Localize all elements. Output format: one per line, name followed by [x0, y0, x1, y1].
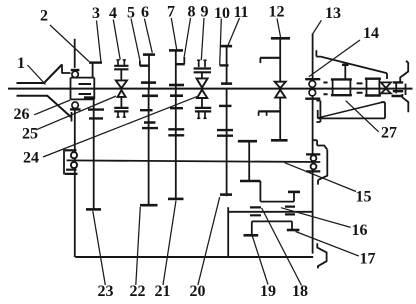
spindle clutch bowtie upper [381, 82, 391, 88]
small gear bar left of clutch 12 [260, 57, 280, 59]
svg-text:2: 2 [40, 7, 48, 24]
leader 27 [346, 101, 379, 132]
wall bracket B2 [313, 140, 327, 184]
leader 26 [34, 100, 70, 115]
block a web [148, 55, 150, 89]
V3 dash pair [217, 130, 233, 136]
dog coupling comb bar [258, 110, 280, 112]
svg-text:27: 27 [381, 125, 397, 142]
shaft I main horizontal line [8, 88, 413, 90]
V1 dash pair [142, 123, 158, 129]
idler gear web [248, 141, 250, 181]
pack top bars [114, 66, 128, 70]
leader 23 [93, 211, 106, 285]
spindle gear G1 bars [331, 79, 352, 95]
pack bottom serifs [116, 116, 126, 118]
sliding gear block b (labels 7,8): cap [169, 49, 183, 52]
bearing (lower) circle [72, 102, 78, 108]
idler gear lower cap (box upper-left gear) [240, 180, 260, 183]
pulley lower flange [71, 112, 73, 122]
leader 14 [309, 40, 360, 77]
spindle gear G2 bars [365, 79, 381, 96]
svg-text:14: 14 [363, 25, 379, 42]
wall bracket B3 bottom [317, 243, 326, 268]
clutch I lower hub [120, 97, 122, 108]
box lower block outline [252, 221, 292, 235]
leader 4 [113, 20, 120, 60]
leader 17 [296, 232, 359, 257]
spindle gear G1 sides [333, 79, 351, 95]
gear 20 cap [220, 193, 232, 196]
box left wall [227, 207, 229, 257]
leader 12 [277, 19, 281, 38]
svg-text:17: 17 [360, 251, 376, 268]
bearing bracket on lower shaft left [63, 149, 65, 175]
box upper block outline [260, 181, 294, 202]
block c small gear bar [220, 64, 229, 66]
svg-text:25: 25 [22, 126, 38, 143]
block b web [175, 50, 177, 88]
leader 7 [171, 18, 177, 50]
quill / sleeve box [71, 78, 95, 100]
leader 22 [136, 207, 141, 285]
gear column V3 web [226, 89, 228, 197]
block a hub cap [141, 81, 156, 84]
V2 middle bar [170, 107, 183, 109]
clutch III lower shaft [279, 98, 281, 141]
leader 18 [262, 208, 302, 286]
V0 long web down to gear 23 [93, 97, 95, 209]
pack bottom bars [195, 108, 211, 112]
V3 top bar [219, 105, 232, 107]
headstock left wall [312, 34, 314, 254]
svg-text:6: 6 [141, 4, 149, 21]
lower-left bearing circles [71, 152, 77, 158]
pack bottom bars [114, 108, 128, 112]
clutch II lower hub [201, 98, 203, 107]
wall bracket B1 [316, 101, 320, 122]
block c web [226, 46, 228, 85]
pack bars [194, 69, 211, 73]
pack bottom inner plates [199, 111, 205, 118]
belt upper edge [17, 65, 63, 84]
small gear tick [259, 58, 261, 63]
leader 16 [281, 208, 351, 228]
small gear web [344, 65, 346, 80]
svg-text:18: 18 [292, 283, 308, 300]
pack bottom serifs [197, 117, 207, 119]
svg-text:15: 15 [356, 189, 372, 206]
right wall bottom hook [402, 94, 408, 112]
leader 20 [198, 197, 220, 285]
svg-text:11: 11 [233, 4, 248, 21]
block b small gear bar [176, 63, 185, 65]
leader 5 [131, 19, 140, 61]
box upper block small gear cap [288, 191, 300, 194]
clutch I bowtie upper triangle [116, 80, 127, 88]
leader 11 [227, 18, 239, 47]
leader 8 [184, 18, 190, 56]
V1 top cap [142, 95, 158, 98]
block b small gear tick [183, 57, 185, 65]
clutch II bowtie upper triangle [197, 78, 208, 87]
leader 13 [313, 20, 322, 34]
svg-text:26: 26 [14, 106, 30, 123]
shaft III lower horizontal line [67, 160, 321, 162]
left vertical shaft (pulley sleeve axis down to frame corner) [74, 109, 76, 258]
svg-text:23: 23 [98, 283, 114, 300]
pulley upper flange [62, 64, 71, 73]
lower-right bearing caps [306, 154, 320, 171]
spindle clutch bowtie lower [381, 89, 391, 94]
leader 15 [285, 163, 356, 192]
svg-text:16: 16 [352, 222, 368, 239]
leader 1 [28, 65, 46, 85]
block a small gear bar [140, 64, 149, 66]
clutch I hub [120, 69, 122, 80]
small gear above spindle gear: cap [342, 64, 349, 66]
V0 gear bars [88, 110, 104, 119]
clutch 12 shaft web [279, 38, 281, 81]
right wall top hook [400, 61, 408, 82]
svg-text:7: 7 [167, 4, 175, 21]
svg-text:21: 21 [155, 283, 171, 300]
spindle end plate [405, 84, 407, 95]
bottom frame line [75, 256, 313, 258]
svg-text:10: 10 [214, 5, 230, 22]
idler gear column: upper cap [238, 140, 257, 143]
V1 middle bar [140, 109, 153, 111]
gear on shaft of clutch 12: cap [271, 37, 290, 40]
pack bottom inner plates [118, 111, 124, 117]
svg-text:4: 4 [109, 5, 117, 22]
box spline dashes left pair [250, 207, 261, 215]
spindle front bearing circles [309, 81, 316, 88]
bearing (upper) circle [72, 71, 78, 77]
spindle front bearing caps [305, 79, 320, 99]
V2 top cap [170, 94, 183, 97]
shaft V middle line of lower gear box [228, 211, 313, 213]
lower-left bearing top bar [65, 149, 77, 151]
spindle collar dash right [395, 83, 397, 93]
svg-text:12: 12 [269, 4, 285, 21]
svg-text:1: 1 [17, 55, 25, 72]
gear cap at bottom of clutch-12 shaft [271, 139, 288, 142]
lower-left bearing bottom bars [65, 170, 78, 174]
bearing (upper) on pulley sleeve: cap [71, 69, 80, 71]
pack top serifs [116, 59, 126, 61]
housing bottom inner slant [318, 102, 384, 118]
gear column V1 web [148, 89, 150, 206]
leader 21 [163, 201, 176, 286]
comb teeth [259, 111, 267, 116]
gear 22 cap [140, 204, 158, 207]
block a small gear tick [139, 61, 141, 66]
svg-text:19: 19 [260, 283, 276, 300]
svg-text:8: 8 [188, 4, 196, 21]
gear column V2 web [175, 89, 177, 199]
svg-text:20: 20 [190, 283, 206, 300]
svg-text:3: 3 [92, 5, 100, 22]
leader 6 [144, 19, 152, 53]
bearing (lower) cap [70, 108, 81, 110]
leader 9 [201, 18, 204, 60]
upper stub of left shaft above pulley [74, 39, 76, 68]
lower-right bearing circles [311, 155, 317, 161]
spacer dashes left of G1 [323, 83, 327, 95]
gear 21 cap [168, 198, 184, 201]
box lower block left gear cap [244, 234, 259, 237]
gear on sleeve (pointed by 2,3): cap [89, 61, 102, 63]
leader 3 [97, 21, 102, 63]
leader 24 [43, 96, 198, 157]
gear block c (labels 10,11): cap [221, 45, 232, 48]
box spline dashes right pair [285, 207, 295, 215]
friction clutch pack top (label 9 area): inner plates [199, 60, 205, 67]
gear 23 cap [86, 208, 101, 211]
belt lower edge [17, 96, 72, 118]
svg-text:22: 22 [130, 283, 146, 300]
clutch II bowtie lower triangle [197, 90, 207, 98]
svg-text:5: 5 [127, 5, 135, 22]
clutch II hub [201, 72, 203, 78]
block c hub cap [221, 82, 232, 85]
housing top outline [316, 50, 387, 79]
box lower block right gear cap [287, 229, 300, 232]
svg-text:9: 9 [201, 4, 209, 21]
leader 2 [50, 25, 89, 62]
svg-text:13: 13 [325, 5, 341, 22]
clutch I bowtie lower triangle [118, 90, 126, 97]
friction clutch pack top (label 4): inner plates [118, 60, 124, 66]
gear on sleeve web [92, 63, 94, 78]
clutch III bowtie upper triangle [275, 82, 286, 88]
leader 19 [252, 236, 268, 284]
housing bottom outline [318, 102, 385, 118]
spindle gear G2 sides [367, 79, 380, 96]
leader 10 [220, 19, 222, 66]
quill spline bars [79, 84, 92, 94]
sliding gear block a (labels 5,6): large gear cap [143, 53, 155, 56]
clutch III bowtie lower triangle [275, 90, 285, 98]
spindle end bars [392, 82, 404, 96]
leader 25 [36, 96, 116, 130]
collar dashes between G1 and G2 [357, 83, 363, 92]
V2 dash pair [168, 129, 184, 135]
gear column V0: hook bar [84, 96, 94, 98]
pack serifs [197, 59, 207, 61]
svg-text:24: 24 [23, 150, 39, 167]
block b hub cap [169, 84, 184, 87]
